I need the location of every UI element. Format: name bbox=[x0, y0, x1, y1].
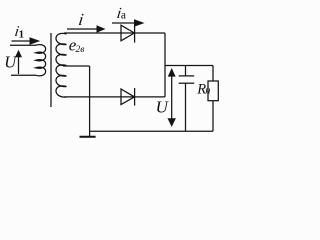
svg-text:i: i bbox=[77, 10, 85, 29]
svg-text:н: н bbox=[205, 86, 210, 97]
svg-text:U: U bbox=[4, 52, 17, 71]
svg-text:U: U bbox=[156, 98, 170, 117]
svg-text:2в: 2в bbox=[76, 45, 85, 55]
svg-text:1: 1 bbox=[19, 30, 24, 41]
svg-text:a: a bbox=[121, 9, 126, 21]
